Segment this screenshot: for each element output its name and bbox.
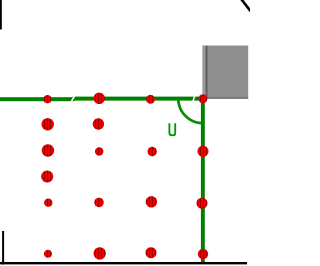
lattice site A1 bbox=[43, 95, 51, 103]
lattice site A2 bbox=[94, 93, 105, 104]
lattice site A3 bbox=[146, 95, 155, 104]
plaquette: darker bottom band of square bbox=[202, 97, 248, 99]
wire: horizontal lattice link line, left segment bbox=[0, 97, 75, 101]
lattice site F1 bbox=[44, 250, 52, 258]
angle arc at corner node bbox=[178, 99, 203, 124]
lattice site C1 bbox=[42, 144, 54, 156]
lattice site C3 bbox=[148, 147, 157, 156]
cropped black mark: top-right diagonal stroke bbox=[241, 0, 250, 11]
lattice site F4 bbox=[198, 249, 208, 259]
plaquette: lighter left column of square bbox=[202, 46, 205, 100]
lattice site F2 bbox=[94, 247, 106, 259]
cropped black mark: top-left vertical bar bbox=[0, 0, 2, 30]
plaquette: dark vertical divider (lattice line under square) bbox=[206, 46, 208, 100]
lattice site D1 bbox=[41, 171, 53, 183]
lattice site B1 bbox=[42, 118, 54, 130]
lattice site E4 bbox=[197, 198, 208, 209]
lattice site C4 bbox=[198, 146, 209, 157]
lattice site B2 bbox=[93, 118, 104, 129]
lattice site E3 bbox=[146, 196, 157, 207]
lattice site E2 bbox=[94, 198, 104, 208]
lattice site E1 bbox=[44, 199, 52, 207]
label U (link variable) bbox=[169, 123, 175, 135]
wire: slanted nick (gap) in horizontal line at x~73 bbox=[71, 96, 74, 102]
wire: vertical lattice link line bbox=[201, 98, 205, 264]
lattice site A4 (corner node) bbox=[198, 94, 207, 103]
cropped black mark: bottom horizontal line bbox=[0, 262, 247, 264]
lattice site F3 bbox=[146, 247, 157, 258]
wire: horizontal lattice link line, right segment bbox=[73, 97, 205, 101]
lattice site C2 bbox=[95, 147, 103, 155]
plaquette: gray square body bbox=[202, 46, 248, 100]
cropped black mark: bottom-left vertical bar bbox=[2, 231, 4, 265]
wire: slanted nick (gap) in horizontal line at x~194 bbox=[193, 96, 195, 101]
